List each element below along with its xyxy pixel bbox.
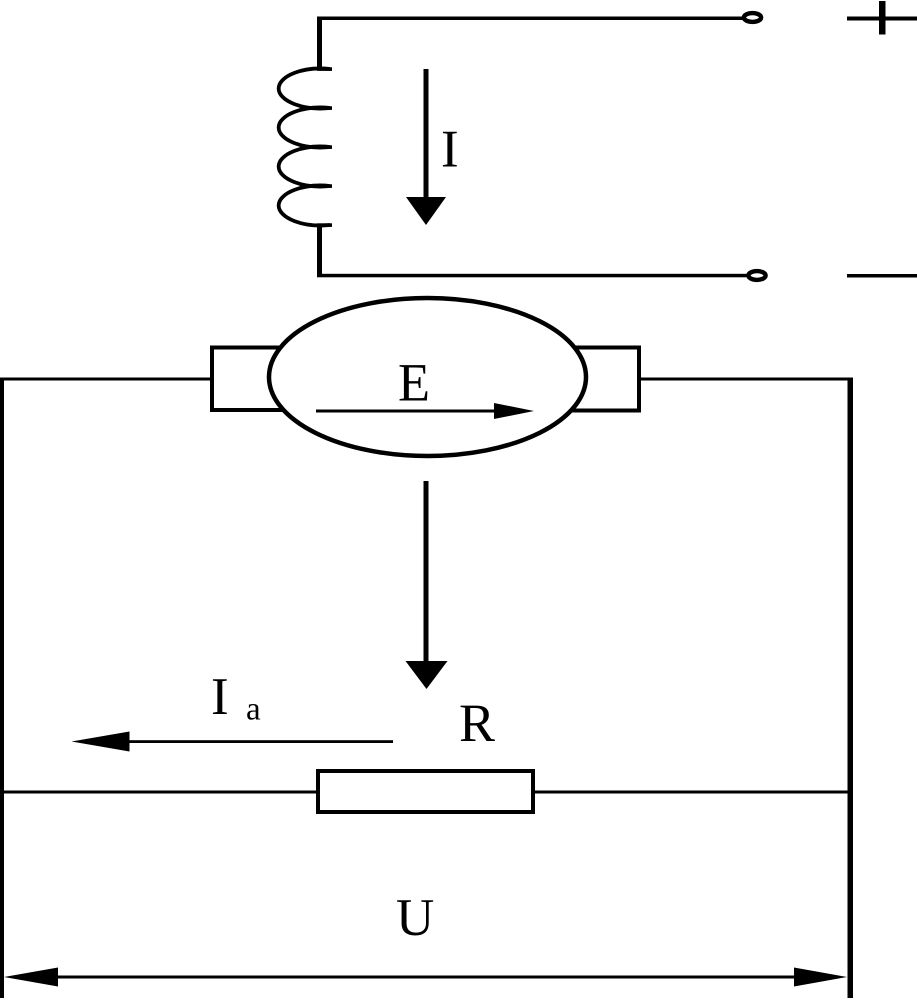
svg-text:U: U [396, 889, 434, 947]
svg-text:a: a [246, 692, 261, 728]
svg-text:R: R [459, 693, 495, 753]
svg-text:I: I [441, 121, 459, 179]
svg-text:I: I [211, 668, 229, 726]
svg-text:E: E [398, 353, 430, 413]
